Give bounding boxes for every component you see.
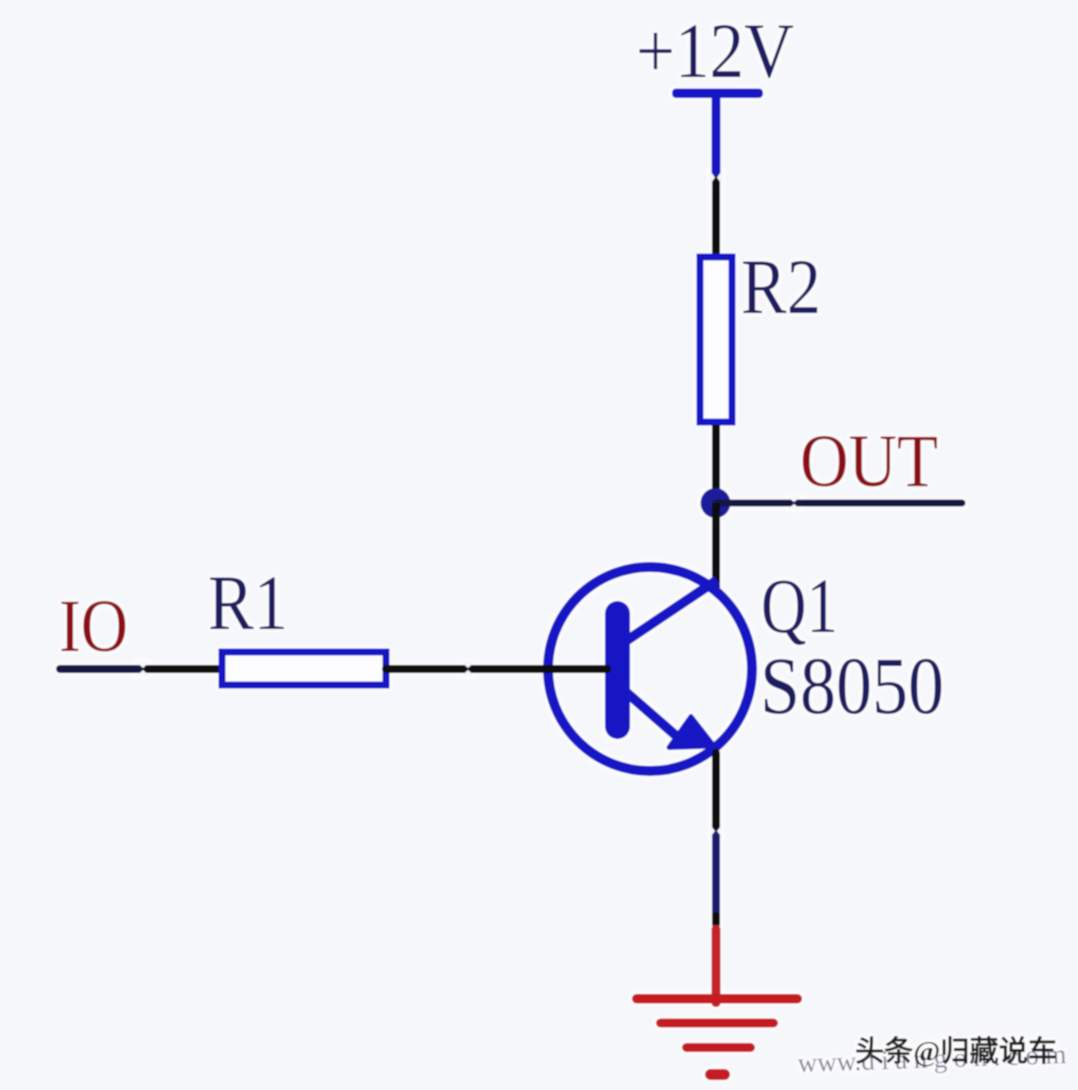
svg-text:IO: IO — [59, 585, 128, 668]
svg-text:S8050: S8050 — [760, 640, 944, 731]
node OUT junction — [701, 488, 731, 518]
wire emitter red — [712, 925, 721, 1007]
wire R1 to base black — [386, 662, 607, 677]
wire IO to R1 black — [145, 665, 222, 673]
svg-text:OUT: OUT — [800, 420, 938, 503]
wire power to R2 black — [712, 179, 720, 257]
wire node to collector black — [712, 503, 720, 593]
resistor R1 — [222, 652, 386, 685]
ground — [632, 994, 802, 1080]
wire power stem blue — [712, 93, 721, 176]
wire R2 to node black — [712, 425, 720, 505]
resistor R2 — [700, 257, 732, 422]
wire OUT — [716, 497, 962, 510]
wire emitter navy — [712, 834, 720, 916]
svg-text:+12V: +12V — [636, 7, 794, 94]
transistor Q1 — [548, 567, 752, 771]
svg-text:Q1: Q1 — [761, 562, 838, 649]
svg-text:R1: R1 — [208, 559, 288, 646]
svg-text:头条@归藏说车: 头条@归藏说车 — [855, 1034, 1057, 1068]
svg-text:R2: R2 — [741, 243, 821, 330]
wire IO lead navy — [60, 665, 141, 673]
wire joint pinch emitter — [710, 824, 723, 838]
wire emitter black lower — [712, 916, 720, 924]
wire joint pinch power stem — [710, 170, 723, 185]
wire emitter black upper — [712, 753, 720, 828]
power symbol +12V bar — [672, 89, 763, 99]
wire joint pinch IO — [136, 662, 150, 677]
